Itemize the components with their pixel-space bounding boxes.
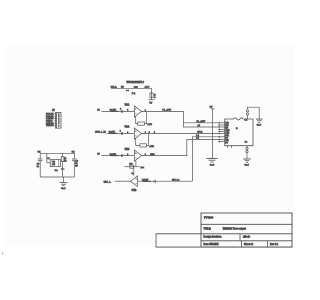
svg-text:VDDA1: VDDA1 <box>46 124 54 127</box>
wire net D: U2 to U1D input <box>192 134 219 181</box>
wire input from right <box>138 180 193 182</box>
capacitor C4 <box>73 153 75 159</box>
resistor R9 vertical <box>151 88 153 99</box>
ground <box>243 158 251 160</box>
ground <box>63 177 65 182</box>
title block <box>156 213 292 247</box>
ground <box>256 118 263 120</box>
regulator U3 <box>50 160 60 167</box>
svg-text:C.2: C.2 <box>55 170 58 172</box>
svg-text:2: 2 <box>154 132 155 134</box>
svg-text:5: 5 <box>149 132 150 134</box>
svg-text:1 R: 1 R <box>132 93 136 95</box>
pin stubs <box>219 122 224 124</box>
wire net B: U1B out to U2 <box>141 131 219 134</box>
wire <box>246 153 248 159</box>
svg-text:1 2: 1 2 <box>245 120 248 122</box>
svg-text:4.7K: 4.7K <box>147 123 152 126</box>
op-amp U1C <box>134 150 141 161</box>
feedback: wire <box>136 116 138 123</box>
wire net C: U1C out to U2 <box>141 137 219 156</box>
svg-text:Sheet of: Sheet of <box>244 243 253 246</box>
jack J2 top <box>246 107 262 127</box>
node MUL_L output <box>115 180 131 182</box>
wire net A2 branch <box>184 123 220 127</box>
svg-text:PL_OUT: PL_OUT <box>197 121 206 123</box>
op-amp U1D channel 4 (mirrored) <box>104 176 193 192</box>
svg-text:1 2: 1 2 <box>245 142 248 144</box>
svg-text:2: 2 <box>120 131 121 133</box>
capacitor C1 <box>39 153 41 159</box>
svg-text:WM8524 Test output: WM8524 Test output <box>223 228 246 231</box>
power flag 5V at U2 <box>210 107 215 159</box>
op-amp U1A <box>134 106 141 117</box>
ground below U2 <box>207 158 218 166</box>
wire <box>107 133 135 135</box>
svg-text:U?B: U?B <box>132 190 137 192</box>
wire <box>248 107 260 119</box>
svg-text:MUL_L: MUL_L <box>104 181 112 183</box>
resistor R4 <box>140 144 147 147</box>
op-amp U1D <box>130 176 137 187</box>
wire bottom rail <box>40 176 74 178</box>
op-amp U1C channel 3 <box>97 149 155 176</box>
op-amp U1B <box>134 128 141 139</box>
resistor R2 <box>138 122 145 125</box>
feedback: wire <box>135 161 137 167</box>
op-amp U1B channel 2 <box>95 126 154 148</box>
svg-text:Gnd: Gnd <box>257 125 262 127</box>
svg-text:Design Revision: Design Revision <box>204 237 222 239</box>
page sheet <box>5 46 294 246</box>
power flag 5V <box>149 99 155 101</box>
svg-text:U?A: U?A <box>125 126 130 129</box>
svg-text:U?A: U?A <box>125 104 130 107</box>
op-amp U1A channel 1 <box>97 104 152 126</box>
capacitor C8 <box>153 180 155 183</box>
resistor R6 <box>130 165 134 168</box>
svg-text:TITLE:: TITLE: <box>204 228 212 231</box>
svg-text:W?8124GEFL?: W?8124GEFL? <box>127 81 145 84</box>
svg-text:Gnd: Gnd <box>61 188 66 190</box>
ferrite bead FB1 <box>62 153 64 177</box>
supply filter network lower-left <box>37 151 79 190</box>
svg-text:Rev 1.0: Rev 1.0 <box>270 244 279 246</box>
svg-text:Gnd: Gnd <box>210 165 215 167</box>
svg-text:2: 2 <box>120 109 121 111</box>
wire inner branch <box>46 153 48 163</box>
svg-text:4.7K: 4.7K <box>149 145 154 148</box>
svg-text:+R.?: +R.? <box>145 87 150 89</box>
svg-text:1: 1 <box>127 132 128 134</box>
artifact dot <box>2 253 3 254</box>
wire to U1D <box>133 167 135 176</box>
wire net A: U1A out to U2 <box>141 110 219 123</box>
svg-text:6: 6 <box>58 125 59 127</box>
wire <box>102 110 135 112</box>
svg-text:AUD_L_IN: AUD_L_IN <box>95 131 106 134</box>
feedback: wire <box>136 138 140 145</box>
capacitor C5 <box>120 132 122 135</box>
input bias chain R/C row <box>111 86 157 105</box>
svg-text:1: 1 <box>127 110 128 112</box>
svg-text:MU_L4: MU_L4 <box>172 179 180 182</box>
svg-text:xNode: xNode <box>243 237 251 239</box>
svg-text:Date 07/31/XX: Date 07/31/XX <box>204 243 220 246</box>
connector J1 <box>46 109 61 128</box>
wire <box>111 87 152 89</box>
wire top rail <box>40 152 74 154</box>
svg-text:Gnd: Gnd <box>244 165 249 167</box>
svg-text:U?B: U?B <box>125 149 130 151</box>
wire <box>102 155 135 157</box>
svg-text:FYT880: FYT880 <box>204 216 214 220</box>
svg-text:1: 1 <box>127 154 128 156</box>
svg-text:4TL2: 4TL2 <box>197 131 203 134</box>
jack J3 bottom <box>243 146 251 167</box>
capacitor C7 <box>120 154 122 157</box>
svg-text:330: 330 <box>129 164 132 166</box>
capacitor C6 <box>120 110 122 113</box>
IC U2 <box>219 118 254 148</box>
